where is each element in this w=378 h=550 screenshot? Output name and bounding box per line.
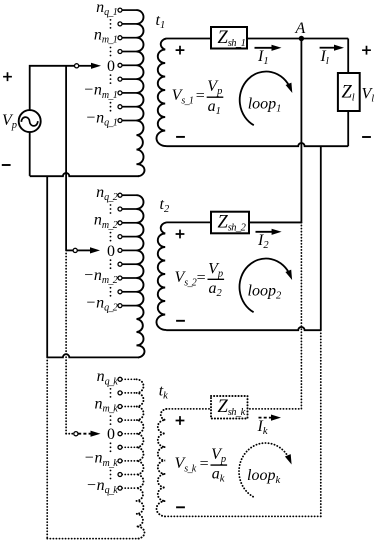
wire: bottom rail of primary section 1 (hops over selector feed) [30, 173, 139, 176]
tap spacing dots section 2 [110, 204, 112, 214]
current arrow I_2 [256, 229, 282, 235]
tap selector arrow to tap 0 of section k (dashed) [78, 431, 100, 437]
tap leads of section k [122, 379, 136, 488]
svg-text:t2: t2 [160, 196, 170, 215]
tap leads of section 2 [122, 195, 136, 305]
svg-text:A: A [295, 20, 306, 37]
tap spacing dots section 2 [110, 287, 112, 297]
tap terminals of section k [118, 377, 122, 490]
wire: bottom rail of loop 2 (hops over dotted node A feed) [166, 327, 321, 330]
svg-text:−nm_2: −nm_2 [83, 267, 118, 286]
impedance Z_sh_1 [211, 27, 247, 49]
tap selector arrow to tap 0 of section 1 [79, 63, 101, 69]
svg-text:Vp: Vp [2, 112, 17, 131]
secondary winding t_k coil [157, 409, 167, 517]
wire: left return branch (dotted) down to section k bottom [46, 357, 48, 538]
svg-text:−nq_2: −nq_2 [85, 294, 117, 313]
svg-text:−nq_k: −nq_k [86, 477, 118, 496]
tap spacing dots section k [110, 470, 112, 480]
svg-text:nm_1: nm_1 [94, 27, 117, 46]
load impedance Z_l [338, 73, 360, 111]
svg-text:0: 0 [107, 243, 115, 260]
secondary winding t_2 coil [156, 222, 166, 330]
primary winding section 1 coil [137, 10, 145, 176]
secondary winding t_1 coil [156, 39, 166, 147]
svg-text:I2: I2 [257, 232, 269, 251]
svg-text:Il: Il [320, 48, 329, 67]
polarity - of t_k [176, 506, 185, 508]
svg-text:loop2: loop2 [248, 283, 282, 302]
polarity + of source [3, 72, 12, 81]
wire: source top to tap selector rail [30, 66, 75, 110]
wire: Z_sh_2 output corner [249, 221, 301, 224]
polarity + of t_k [176, 416, 185, 425]
ac source V_p [19, 110, 41, 132]
tap selector arrow to tap 0 of section 2 [78, 247, 101, 253]
polarity - of t_1 [176, 136, 185, 138]
svg-text:Vp: Vp [208, 260, 223, 279]
svg-text:Vs_k: Vs_k [175, 455, 197, 474]
svg-text:−nm_k: −nm_k [84, 450, 119, 469]
wire: source bottom to winding 1 bottom [29, 132, 31, 176]
tap spacing dots section 1 [110, 74, 112, 84]
current arrow I_1 [255, 45, 282, 51]
impedance Z_sh_k [211, 396, 248, 419]
tap spacing dots section 1 [110, 19, 112, 29]
tap selector contact of section k (dotted) [66, 432, 78, 436]
tap selector contact of section 1 [75, 64, 79, 68]
value label V_s_1 = V_p / a_1 [172, 78, 224, 117]
svg-text:Vl: Vl [362, 86, 375, 105]
svg-text:nm_k: nm_k [94, 395, 118, 414]
tap spacing dots section 1 [110, 47, 112, 57]
svg-text:nq_1: nq_1 [96, 0, 117, 18]
wire: t_2 top to Z_sh_2 [166, 221, 211, 223]
wire: Z_l bottom down to bottom rail [347, 111, 349, 146]
wire: selector feed (dotted) down to section k selector [65, 250, 67, 433]
polarity - of source [2, 164, 11, 166]
svg-text:Vs_2: Vs_2 [175, 269, 197, 288]
svg-text:loop1: loop1 [248, 96, 282, 115]
svg-text:t1: t1 [156, 12, 166, 31]
loop arrow loop_2 [239, 259, 292, 313]
tap terminals of section 2 [118, 193, 122, 307]
current arrow I_k (dashed) [259, 415, 282, 421]
wire: return branch from loop1 rail down to loop2 rail [320, 146, 322, 330]
wire: node A feed down to Z_sh_2 output [300, 39, 302, 222]
wire: node A feed (dotted) down to Z_sh_k output [248, 222, 302, 409]
tap spacing dots section 1 [110, 102, 112, 112]
svg-text:−nm_1: −nm_1 [83, 82, 117, 101]
tap spacing dots section 2 [110, 259, 112, 269]
svg-text:Vp: Vp [207, 78, 222, 97]
value label V_s_2 = V_p / a_2 [175, 260, 225, 299]
wire: bottom rail of primary section 2 (hops over dotted feed) [47, 354, 139, 357]
svg-text:=: = [197, 270, 206, 287]
tap spacing dots section k [110, 415, 112, 425]
svg-text:=: = [196, 88, 205, 105]
polarity - of t_2 [176, 320, 185, 322]
wire: load branch right side down to Z_l [347, 39, 349, 74]
tap spacing dots section k [110, 442, 112, 452]
wire: return branch (dotted) down to loop k rail [320, 330, 322, 516]
polarity + of t_1 [176, 46, 185, 55]
svg-text:−nq_1: −nq_1 [85, 109, 117, 128]
svg-text:=: = [200, 456, 209, 473]
svg-text:Vp: Vp [211, 446, 226, 465]
svg-text:0: 0 [107, 58, 115, 75]
wire: bottom rail of primary section k (dotted) [47, 538, 139, 540]
loop arrow loop_1 [240, 72, 293, 126]
svg-text:ak: ak [212, 466, 225, 485]
tap terminals of section 1 [118, 8, 122, 122]
svg-text:0: 0 [107, 426, 115, 443]
wire: t_k top to Z_sh_k [166, 408, 211, 410]
svg-text:loopk: loopk [247, 467, 280, 486]
tap selector contact of section 2 [66, 248, 77, 252]
polarity - of load [362, 136, 371, 138]
svg-text:nm_2: nm_2 [94, 212, 118, 231]
wire: left return branch down to section 2 bottom [46, 176, 48, 357]
wire: selector feed down from top rail to section 2 selector [65, 66, 67, 251]
wire: bottom rail of loop 1 (hops over node A feed) [166, 143, 348, 146]
svg-text:a1: a1 [208, 98, 221, 117]
wire: Z_sh_1 to node A and on to load corner [247, 38, 348, 40]
loop arrow loop_k [239, 443, 292, 497]
svg-text:tk: tk [159, 382, 168, 401]
impedance Z_sh_2 [211, 212, 249, 234]
polarity + of load [362, 46, 371, 55]
wire: t_1 top to Z_sh_1 [166, 38, 211, 40]
polarity + of t_2 [176, 230, 185, 239]
tap spacing dots section 2 [110, 232, 112, 242]
value label V_s_k = V_p / a_k [175, 446, 228, 485]
current arrow I_l [320, 45, 344, 51]
svg-text:nq_2: nq_2 [96, 184, 118, 203]
svg-text:Vs_1: Vs_1 [172, 87, 194, 106]
svg-text:Ik: Ik [257, 418, 268, 437]
tap spacing dots section k [110, 388, 112, 398]
tap leads of section 1 [122, 10, 136, 120]
svg-text:I1: I1 [257, 48, 269, 67]
svg-text:a2: a2 [208, 280, 222, 299]
primary winding section 2 coil [137, 195, 145, 357]
primary winding section k coil [137, 379, 145, 538]
svg-text:nq_k: nq_k [97, 368, 119, 387]
wire: bottom rail of loop k (dotted) [166, 515, 321, 517]
node A [299, 36, 304, 41]
